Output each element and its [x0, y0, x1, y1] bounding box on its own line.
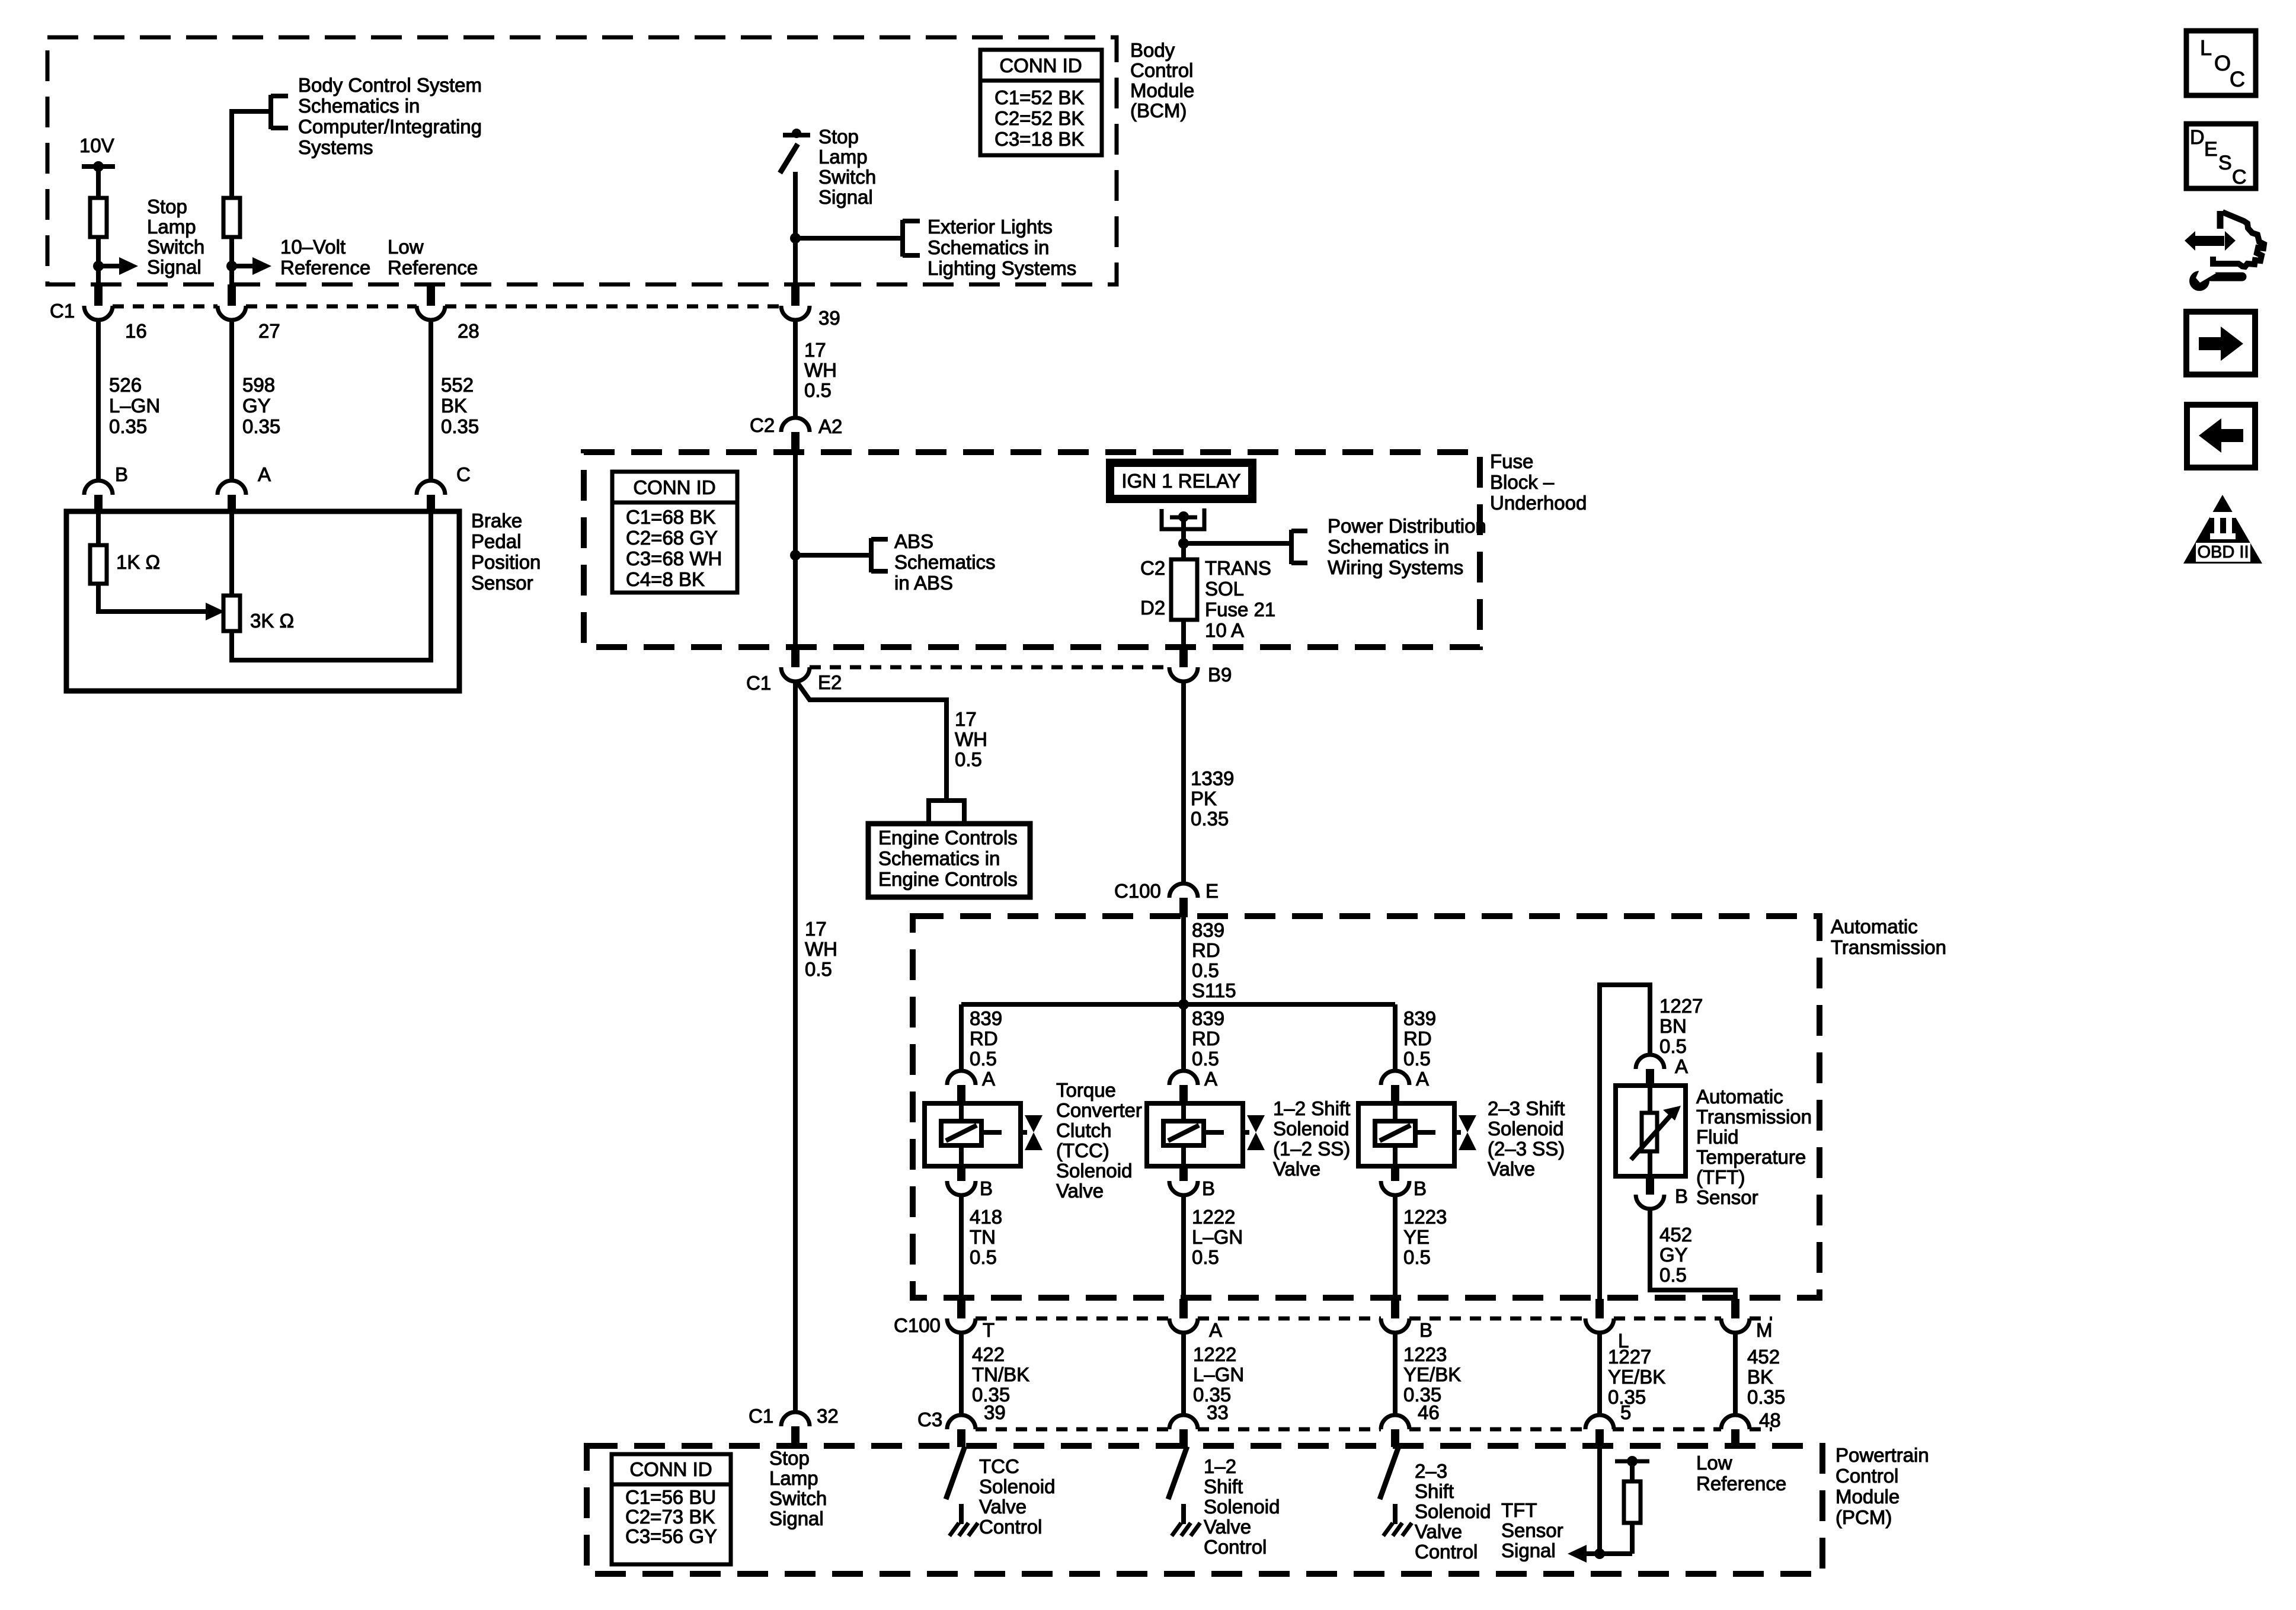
connector row: PCM C3 dotted line — [976, 1427, 1169, 1432]
resistor: stop lamp switch signal pull-up (BCM) — [90, 198, 107, 237]
icon: wrench — [2189, 271, 2209, 291]
solenoid coil symbol (1-2 Shift Solenoid (1-2 SS) Valve) — [1181, 1103, 1186, 1121]
connector pin A (TFT sensor) — [1636, 1055, 1664, 1069]
svg-text:CONN ID: CONN ID — [633, 476, 715, 498]
component box: 1-2 Shift Solenoid (1-2 SS) Valve — [1147, 1103, 1243, 1166]
arrow: TFT Sensor Signal — [1585, 1551, 1600, 1556]
wire: pin B into sensor — [96, 511, 101, 545]
wire: 3K pot to pin C — [232, 511, 431, 660]
wire: circuit 17 WH upper — [793, 320, 798, 419]
arrow: 10-volt reference — [232, 264, 254, 268]
svg-text:A: A — [1209, 1319, 1222, 1341]
connector pin C (BPP sensor) — [417, 481, 445, 495]
svg-text:A: A — [1416, 1068, 1429, 1090]
svg-text:C2: C2 — [750, 414, 775, 436]
switch: 1-2 shift solenoid valve control driver — [1168, 1446, 1187, 1499]
connector C100 pin T — [957, 1299, 965, 1318]
svg-text:D2: D2 — [1140, 597, 1165, 619]
valve symbol (1-2 Shift Solenoid (1-2 SS) Valve) — [1243, 1130, 1249, 1135]
connector C1 pin 32 (PCM) — [781, 1412, 810, 1426]
wire: 418 TN to C100 — [959, 1195, 964, 1299]
node: 10V terminal dot — [93, 161, 104, 172]
svg-text:3K Ω: 3K Ω — [250, 610, 294, 632]
connector pin B9 (fuse block) — [1179, 647, 1188, 667]
svg-text:B: B — [1202, 1177, 1215, 1199]
wire: 839 RD branch to 1-2 shift solenoid — [1181, 1004, 1186, 1072]
arrow: stop lamp switch signal — [98, 264, 121, 268]
connector C3 pin 46 (PCM) — [1381, 1415, 1409, 1429]
wire: branch to ABS pointer — [795, 553, 871, 558]
connector pin 16 (BCM C1) — [94, 284, 103, 306]
svg-text:B9: B9 — [1208, 664, 1232, 686]
icon: vehicle outline — [2217, 211, 2224, 229]
wire: 1222 L–GN to C100 — [1181, 1195, 1186, 1299]
svg-text:E: E — [1205, 880, 1219, 902]
connector C1 pin E2 (fuse block) — [791, 647, 800, 667]
power terminal 10V bar — [82, 164, 115, 169]
svg-text:C1=56 BUC2=73 BKC3=56 GY: C1=56 BUC2=73 BKC3=56 GY — [625, 1486, 717, 1547]
wire: TFT sensor signal inside PCM — [1597, 1447, 1602, 1554]
fuse: TRANS SOL Fuse 21 10 A — [1171, 559, 1197, 620]
connector pin A (2-3 shift solenoid) — [1381, 1071, 1409, 1085]
svg-text:CONN ID: CONN ID — [629, 1458, 712, 1480]
wire: TCC harness to PCM connector — [959, 1333, 964, 1416]
connector C100 pin E — [1169, 884, 1198, 898]
resistor R 1K (BPP sensor) — [90, 545, 107, 584]
svg-text:C100: C100 — [894, 1314, 941, 1336]
connector pin A (1-2 shift solenoid) — [1169, 1071, 1198, 1085]
svg-text:C1: C1 — [746, 672, 771, 694]
wire: branch to power distribution pointer — [1184, 541, 1291, 546]
solenoid coil symbol (2-3 Shift Solenoid (2-3 SS) Valve) — [1393, 1103, 1398, 1121]
wire: fuse D2 to pin B9 — [1181, 620, 1186, 648]
svg-text:CONN ID: CONN ID — [999, 55, 1082, 76]
switch: TCC solenoid valve control driver — [946, 1446, 965, 1499]
wire: 1227 BN loop from C100 pin L — [1600, 985, 1650, 1299]
wire: 839 RD branch to 2-3 shift solenoid — [1393, 1004, 1398, 1072]
connector pin 28 (BCM C1) — [427, 286, 435, 306]
icon: vehicle data double arrow — [2195, 236, 2224, 246]
connector pin B (TCC solenoid) — [957, 1166, 965, 1181]
svg-text:OBD II: OBD II — [2197, 543, 2249, 562]
svg-text:A: A — [1204, 1068, 1217, 1090]
svg-text:C2: C2 — [1140, 557, 1165, 579]
potentiometer R 3K (BPP sensor) — [223, 596, 240, 631]
node: splice S115 — [1178, 999, 1189, 1010]
wire: circuit 598 GY — [229, 320, 234, 482]
icon: DESC box — [2186, 124, 2256, 188]
resistor: 10-volt reference pull-up (BCM) — [223, 198, 240, 237]
svg-text:B: B — [115, 463, 128, 485]
wire: 1223 YE to C100 — [1393, 1195, 1398, 1299]
connector C100 pin A — [1179, 1299, 1188, 1318]
wire: 10V to resistor — [96, 167, 101, 198]
valve symbol (2-3 Shift Solenoid (2-3 SS) Valve) — [1454, 1130, 1461, 1135]
svg-text:32: 32 — [817, 1405, 839, 1427]
module box: Body Control Module (BCM) dashed outline — [47, 37, 1117, 284]
component box: Torque Converter Clutch (TCC) Solenoid Valve — [925, 1103, 1021, 1166]
wire: 1K resistor to wiper arrow — [98, 584, 207, 612]
wire: resistor to BCM pin 16 — [96, 237, 101, 286]
connector C100 pin M — [1731, 1299, 1739, 1318]
icon: forward arrow box — [2186, 312, 2255, 375]
svg-text:B: B — [980, 1177, 993, 1199]
connector C3 pin 5 (PCM) — [1585, 1415, 1614, 1429]
ground: TCC solenoid valve control driver ground — [959, 1504, 964, 1524]
connector C2 pin A2 (fuse block) — [781, 418, 810, 432]
table: BCM CONN ID box — [980, 50, 1102, 155]
bracket: Body Control System schematics pointer — [268, 95, 273, 129]
svg-text:A: A — [1675, 1055, 1688, 1077]
svg-text:C1: C1 — [749, 1405, 773, 1427]
bracket: ABS schematics pointer — [869, 538, 874, 572]
connector pin B (BPP sensor) — [84, 481, 113, 495]
icon: back arrow box — [2187, 405, 2255, 468]
icon: LOC box — [2186, 31, 2256, 95]
relay box: IGN 1 RELAY — [1110, 463, 1252, 499]
connector C3 pin 39 (PCM) — [947, 1415, 976, 1429]
wire: 2-3 harness to PCM connector — [1393, 1333, 1398, 1416]
node: TFT signal junction — [1594, 1548, 1605, 1559]
component box: 2-3 Shift Solenoid (2-3 SS) Valve — [1358, 1103, 1454, 1166]
svg-text:27: 27 — [258, 320, 280, 342]
splice S115 bus wire — [961, 1002, 1395, 1007]
connector pin B (1-2 shift solenoid) — [1179, 1166, 1188, 1181]
wire: 839 RD feed to splice — [1181, 917, 1186, 1004]
resistor: PCM low reference pull-up — [1630, 1523, 1635, 1554]
wire: pin A into sensor — [229, 511, 234, 596]
reference box: Engine Controls Schematics in Engine Controls — [868, 824, 1030, 897]
switch: 2-3 shift solenoid valve control driver — [1380, 1446, 1399, 1499]
svg-text:E2: E2 — [818, 671, 842, 693]
svg-text:Engine ControlsSchematics inEn: Engine ControlsSchematics inEngine Contr… — [878, 827, 1018, 890]
svg-text:33: 33 — [1207, 1401, 1229, 1423]
connector pin B (2-3 shift solenoid) — [1391, 1166, 1399, 1181]
svg-text:B: B — [1414, 1177, 1427, 1199]
ground: 2-3 shift solenoid valve control driver ground — [1393, 1504, 1398, 1524]
wire: branch to exterior lights pointer — [795, 236, 903, 241]
node: 10-volt reference junction — [226, 261, 237, 271]
bracket: Exterior Lights schematics pointer — [900, 220, 905, 257]
wire: 10-volt reference riser to schematic pointer — [232, 111, 268, 198]
component box: Automatic Transmission Fluid Temperature (TFT) Sensor — [1616, 1086, 1686, 1176]
svg-text:16: 16 — [125, 320, 147, 342]
svg-text:C3: C3 — [917, 1409, 942, 1430]
svg-text:IGN 1 RELAY: IGN 1 RELAY — [1121, 470, 1240, 492]
thermistor symbol (TFT sensor) — [1648, 1086, 1652, 1113]
wire: 17 WH through fuse block — [793, 454, 798, 648]
ground: 1-2 shift solenoid valve control driver ground — [1181, 1504, 1186, 1524]
svg-text:39: 39 — [818, 307, 840, 329]
connector pin A (BPP sensor) — [218, 481, 246, 495]
wire: TFT signal harness to PCM connector — [1597, 1333, 1602, 1416]
bracket: engine controls pointer — [926, 798, 967, 803]
switch: stop lamp switch contact (BCM input) — [783, 133, 810, 137]
node: relay output dot — [1178, 511, 1189, 522]
module box: Automatic Transmission dashed outline — [913, 916, 1819, 1298]
relay output bracket symbol — [1162, 508, 1204, 529]
wire: TFT low ref harness to PCM connector — [1733, 1333, 1738, 1416]
connector row: fuse block bottom dotted line — [810, 665, 1169, 670]
connector row: BCM connector C1 dotted line — [113, 305, 218, 309]
svg-text:46: 46 — [1418, 1401, 1440, 1423]
svg-text:A: A — [982, 1068, 995, 1090]
wire: stop lamp switch signal to pin 39 — [793, 172, 798, 286]
node: stop lamp switch signal junction — [93, 261, 104, 271]
connector pin B (TFT sensor) — [1646, 1176, 1654, 1195]
icon: OBD II triangle — [2183, 495, 2262, 564]
component box: Brake Pedal Position Sensor — [66, 511, 459, 691]
table: fuse block CONN ID box — [612, 472, 737, 593]
wire: circuit 1339 PK — [1181, 681, 1186, 885]
connector C3 pin 48 (PCM) — [1721, 1415, 1750, 1429]
svg-text:M: M — [1756, 1319, 1773, 1341]
svg-text:B: B — [1675, 1185, 1688, 1207]
svg-text:A2: A2 — [818, 415, 842, 437]
connector pin 27 (BCM C1) — [228, 284, 236, 306]
svg-text:A: A — [258, 463, 271, 485]
svg-text:10V: 10V — [79, 135, 114, 156]
connector pin 39 (BCM C1) — [791, 284, 800, 306]
wire: resistor to BCM pin 27 — [229, 237, 234, 286]
wire: E2 branch to engine controls — [797, 681, 946, 799]
wire: circuit 552 BK — [428, 320, 433, 482]
svg-text:T: T — [983, 1319, 994, 1341]
wire: relay output stem — [1181, 517, 1186, 561]
bracket: Power Distribution schematics pointer — [1289, 530, 1294, 564]
module box: Powertrain Control Module (PCM) dashed outline — [587, 1446, 1822, 1574]
arrow: wiper into 3K potentiometer — [206, 603, 225, 620]
connector C100 pin B — [1391, 1299, 1399, 1318]
connector C3 pin 33 (PCM) — [1169, 1415, 1198, 1429]
wire: 17 WH main run to PCM pin 32 — [793, 681, 798, 1413]
svg-text:C: C — [456, 463, 471, 485]
node: ABS branch junction — [790, 550, 801, 561]
svg-text:C1=52 BKC2=52 BKC3=18 BK: C1=52 BKC2=52 BKC3=18 BK — [994, 87, 1084, 150]
svg-text:28: 28 — [458, 320, 479, 342]
wire: circuit 526 L-GN — [96, 320, 101, 482]
connector pin A (TCC solenoid) — [947, 1071, 976, 1085]
solenoid coil symbol (Torque Converter Clutch (TCC) Solenoid Valve) — [959, 1103, 964, 1121]
svg-text:39: 39 — [984, 1401, 1006, 1423]
connector row: C100 dotted line — [976, 1317, 1169, 1321]
node: power distribution junction — [1178, 538, 1189, 549]
svg-text:C1: C1 — [50, 300, 75, 322]
connector C100 pin L — [1595, 1299, 1604, 1318]
svg-text:1K Ω: 1K Ω — [116, 551, 160, 573]
svg-text:C100: C100 — [1114, 880, 1161, 902]
wire: 1-2 harness to PCM connector — [1181, 1333, 1186, 1416]
valve symbol (Torque Converter Clutch (TCC) Solenoid Valve) — [1021, 1130, 1027, 1135]
module box: Fuse Block - Underhood dashed outline — [584, 452, 1480, 647]
svg-text:5: 5 — [1620, 1401, 1631, 1423]
node: exterior lights branch junction — [790, 233, 801, 244]
wire: 452 GY to C100 pin M — [1650, 1209, 1735, 1299]
wire: 839 RD branch to TCC solenoid — [959, 1004, 964, 1072]
svg-text:B: B — [1419, 1319, 1432, 1341]
table: PCM CONN ID box — [612, 1454, 731, 1564]
